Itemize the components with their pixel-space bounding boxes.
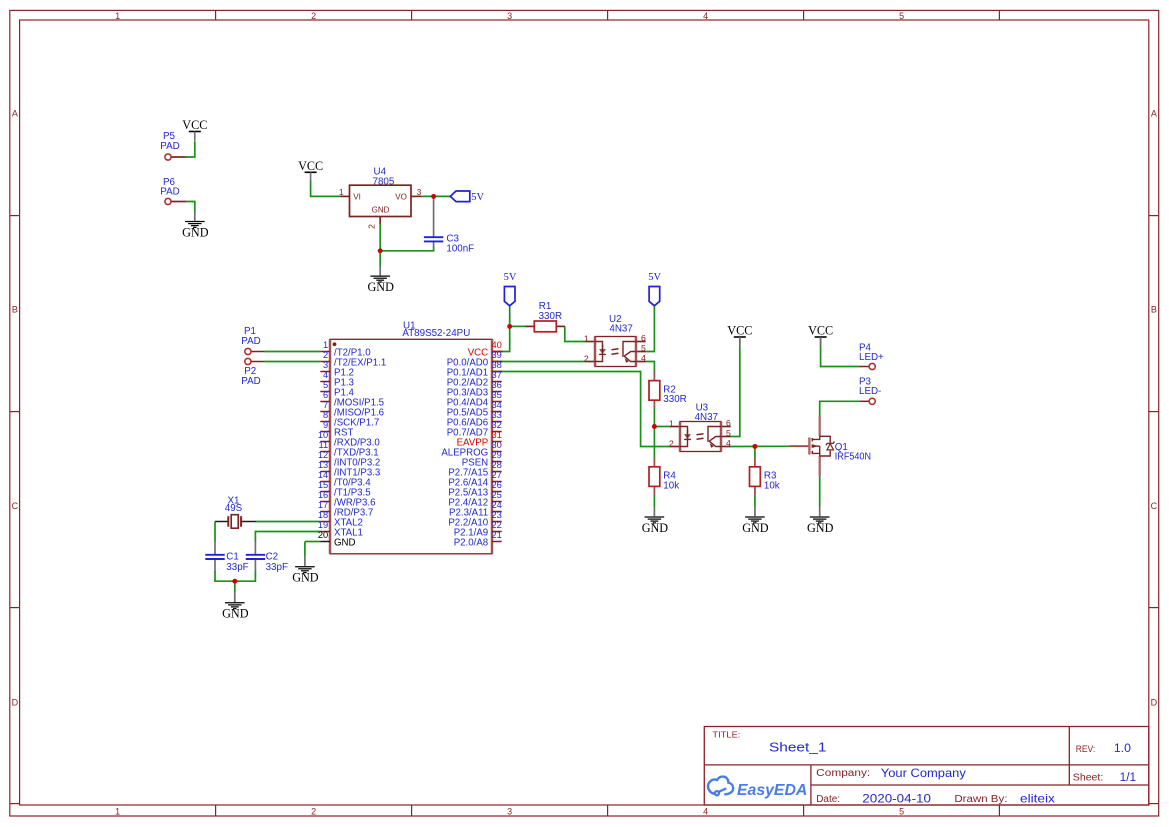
svg-text:2: 2 (323, 350, 328, 360)
svg-text:1/1: 1/1 (1120, 770, 1137, 784)
svg-text:27: 27 (492, 470, 502, 480)
svg-text:Your Company: Your Company (881, 766, 966, 780)
svg-text:30: 30 (492, 440, 502, 450)
svg-text:330R: 330R (539, 311, 562, 322)
svg-text:3: 3 (417, 187, 422, 197)
svg-text:PAD: PAD (241, 336, 260, 347)
svg-text:10k: 10k (764, 480, 780, 491)
svg-text:D: D (12, 698, 19, 708)
svg-text:TITLE:: TITLE: (712, 730, 740, 740)
svg-text:4N37: 4N37 (609, 323, 632, 334)
svg-text:23: 23 (492, 510, 502, 520)
svg-text:33pF: 33pF (226, 562, 248, 573)
svg-text:15: 15 (318, 480, 328, 490)
svg-text:5V: 5V (471, 192, 484, 203)
svg-text:GND: GND (372, 206, 390, 215)
svg-text:38: 38 (492, 360, 502, 370)
svg-text:21: 21 (492, 530, 502, 540)
svg-text:4: 4 (703, 11, 708, 21)
svg-text:A: A (12, 108, 18, 118)
svg-text:25: 25 (492, 490, 502, 500)
svg-text:1: 1 (323, 340, 328, 350)
svg-text:11: 11 (319, 440, 329, 450)
svg-text:34: 34 (492, 400, 502, 410)
svg-text:24: 24 (492, 500, 502, 510)
svg-text:LED-: LED- (859, 386, 881, 397)
svg-text:1: 1 (115, 11, 120, 21)
svg-text:35: 35 (492, 390, 502, 400)
svg-text:2: 2 (669, 439, 674, 449)
svg-text:17: 17 (318, 500, 328, 510)
svg-text:40: 40 (492, 340, 502, 350)
svg-text:39: 39 (492, 350, 502, 360)
svg-text:Sheet:: Sheet: (1073, 772, 1104, 783)
svg-text:10: 10 (318, 430, 328, 440)
svg-text:5: 5 (899, 806, 904, 816)
svg-text:6: 6 (641, 333, 646, 343)
svg-text:26: 26 (492, 480, 502, 490)
svg-text:18: 18 (318, 510, 328, 520)
svg-text:1.0: 1.0 (1114, 741, 1131, 755)
svg-text:B: B (1151, 305, 1157, 315)
svg-text:12: 12 (318, 450, 328, 460)
svg-text:10k: 10k (663, 480, 679, 491)
svg-text:PAD: PAD (160, 187, 179, 198)
svg-text:1: 1 (339, 187, 344, 197)
svg-text:1: 1 (669, 419, 674, 429)
svg-text:Date:: Date: (816, 794, 840, 805)
svg-text:Sheet_1: Sheet_1 (769, 741, 826, 755)
svg-text:14: 14 (318, 470, 328, 480)
svg-text:4N37: 4N37 (695, 412, 718, 423)
svg-text:C2: C2 (266, 552, 279, 563)
svg-text:36: 36 (492, 380, 502, 390)
svg-text:D: D (1151, 698, 1158, 708)
svg-text:13: 13 (318, 460, 328, 470)
svg-text:IRF540N: IRF540N (835, 452, 871, 463)
svg-text:Company:: Company: (816, 768, 870, 779)
svg-text:AT89S52-24PU: AT89S52-24PU (402, 328, 470, 339)
svg-text:33pF: 33pF (266, 562, 288, 573)
svg-text:2: 2 (367, 224, 377, 229)
svg-text:REV:: REV: (1076, 743, 1096, 754)
svg-text:Drawn By:: Drawn By: (954, 794, 1007, 805)
svg-text:22: 22 (492, 520, 502, 530)
svg-text:3: 3 (507, 11, 512, 21)
svg-text:2020-04-10: 2020-04-10 (862, 792, 931, 806)
svg-text:33: 33 (492, 410, 502, 420)
svg-text:28: 28 (492, 460, 502, 470)
svg-text:C1: C1 (226, 552, 239, 563)
svg-text:5: 5 (899, 11, 904, 21)
svg-text:EasyEDA: EasyEDA (737, 782, 807, 799)
svg-text:PAD: PAD (241, 376, 260, 387)
svg-text:29: 29 (492, 450, 502, 460)
svg-text:20: 20 (318, 530, 328, 540)
svg-text:3: 3 (323, 360, 328, 370)
svg-text:32: 32 (492, 420, 502, 430)
svg-text:3: 3 (507, 806, 512, 816)
svg-text:C: C (1151, 501, 1158, 511)
svg-text:PAD: PAD (160, 141, 179, 152)
svg-text:16: 16 (318, 490, 328, 500)
svg-text:7: 7 (323, 400, 328, 410)
svg-text:6: 6 (323, 390, 328, 400)
svg-text:4: 4 (726, 438, 731, 448)
svg-text:4: 4 (703, 806, 708, 816)
svg-text:VO: VO (395, 193, 407, 202)
svg-text:C: C (12, 501, 19, 511)
svg-text:GND: GND (334, 538, 356, 549)
svg-text:4: 4 (323, 370, 328, 380)
svg-text:4: 4 (641, 353, 646, 363)
svg-text:1: 1 (584, 334, 589, 344)
svg-text:LED+: LED+ (859, 352, 884, 363)
svg-text:5: 5 (641, 343, 646, 353)
svg-text:B: B (12, 305, 18, 315)
svg-text:37: 37 (492, 370, 502, 380)
svg-text:1: 1 (115, 806, 120, 816)
svg-text:9: 9 (323, 420, 328, 430)
svg-text:8: 8 (323, 410, 328, 420)
svg-text:2: 2 (584, 354, 589, 364)
svg-text:A: A (1151, 108, 1157, 118)
svg-text:eliteix: eliteix (1020, 792, 1055, 806)
svg-text:5: 5 (323, 380, 328, 390)
svg-text:VI: VI (353, 193, 361, 202)
svg-text:P2.0/A8: P2.0/A8 (454, 538, 488, 549)
svg-text:330R: 330R (663, 394, 686, 405)
svg-text:31: 31 (492, 430, 502, 440)
svg-text:19: 19 (318, 520, 328, 530)
svg-text:100nF: 100nF (446, 244, 474, 255)
svg-text:7805: 7805 (373, 176, 395, 187)
svg-text:2: 2 (311, 806, 316, 816)
svg-text:6: 6 (726, 418, 731, 428)
svg-text:5: 5 (726, 428, 731, 438)
svg-text:49S: 49S (225, 503, 243, 514)
svg-text:2: 2 (311, 11, 316, 21)
